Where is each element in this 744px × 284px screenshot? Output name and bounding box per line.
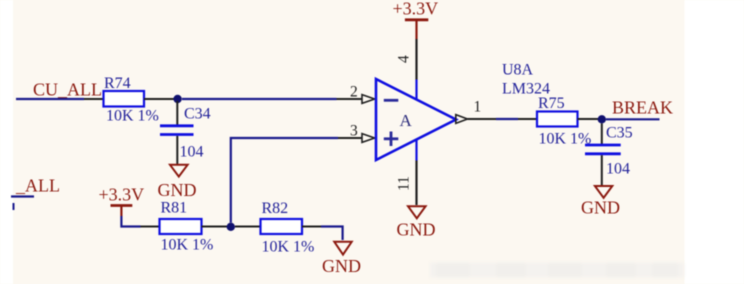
- op-amp plus mark: [384, 132, 399, 147]
- svg-text:+3.3V: +3.3V: [393, 0, 439, 19]
- power +3.3V (top) stem: [415, 20, 417, 39]
- svg-text:R81: R81: [161, 200, 188, 217]
- right white margin: [685, 0, 744, 284]
- svg-text:R74: R74: [104, 75, 131, 92]
- wire pin 2 stub: [337, 98, 363, 100]
- wire R74 left lead: [84, 98, 104, 100]
- pin 11 stub (blue): [415, 140, 417, 161]
- junction B (R81/R82/pin3): [227, 223, 235, 231]
- op-amp U8A triangle: [376, 79, 456, 160]
- svg-text:104: 104: [606, 161, 630, 178]
- capacitor C34: [160, 126, 194, 135]
- wire R75 left lead: [518, 118, 538, 120]
- wire pin 1 to R75: [468, 118, 497, 120]
- svg-text:_ALL: _ALL: [15, 176, 60, 196]
- wire C34 bottom lead: [176, 136, 178, 164]
- ground symbol (C35): [595, 186, 612, 198]
- wire segment (net): [496, 118, 518, 120]
- pin 2 arrow: [362, 95, 375, 104]
- wire C35 top lead: [601, 124, 603, 145]
- svg-text:11: 11: [396, 176, 413, 191]
- wire CU_ALL to R74: [16, 98, 84, 100]
- pin 3 arrow: [362, 134, 375, 143]
- svg-text:C35: C35: [606, 125, 633, 142]
- ground symbol (C34): [170, 165, 188, 177]
- wire R82 right lead: [302, 226, 321, 228]
- junction C (R75/C35/BREAK): [598, 115, 606, 123]
- wire +3.3V to R81: [121, 216, 140, 227]
- wire under _ALL: [11, 195, 34, 197]
- wire R75 right lead: [578, 118, 599, 120]
- svg-text:R75: R75: [538, 95, 565, 112]
- svg-text:10K 1%: 10K 1%: [262, 239, 315, 256]
- wire pin 11 to ground: [415, 161, 417, 206]
- wire junction to BREAK: [606, 118, 660, 120]
- svg-text:+3.3V: +3.3V: [99, 185, 145, 205]
- svg-text:10K 1%: 10K 1%: [539, 131, 592, 148]
- capacitor C35: [585, 145, 621, 154]
- svg-text:BREAK: BREAK: [612, 98, 673, 118]
- svg-text:U8A: U8A: [502, 62, 534, 79]
- svg-text:GND: GND: [158, 180, 197, 200]
- power +3.3V (top) bar: [405, 18, 428, 21]
- wire R82 left lead: [235, 226, 261, 228]
- resistor R75: [537, 112, 578, 127]
- svg-text:4: 4: [396, 55, 413, 63]
- svg-text:3: 3: [350, 123, 358, 140]
- watermark strip: [430, 263, 684, 278]
- pin 1 arrow (output): [456, 115, 468, 124]
- svg-text:GND: GND: [581, 198, 620, 218]
- wire C35 bottom lead: [601, 155, 603, 185]
- op-amp minus mark: [384, 99, 399, 102]
- left white margin: [0, 0, 13, 284]
- svg-text:104: 104: [180, 144, 204, 161]
- svg-text:GND: GND: [397, 220, 436, 240]
- resistor R81: [160, 219, 202, 234]
- wire junction up and to pin 3: [231, 138, 338, 223]
- wire tick at left edge: [13, 203, 15, 210]
- resistor R82: [261, 219, 303, 234]
- svg-text:R82: R82: [262, 200, 289, 217]
- wire R82 to ground: [321, 227, 343, 241]
- junction A (R74/C34): [173, 95, 181, 103]
- wire junction to pin 2: [182, 98, 337, 100]
- wire R81 left lead: [141, 226, 161, 228]
- wire R74 right lead: [144, 98, 174, 100]
- wire R81 right lead: [202, 226, 228, 228]
- wire C34 top lead: [176, 101, 178, 125]
- wire +3.3V to pin 4: [415, 39, 417, 80]
- svg-text:10K 1%: 10K 1%: [106, 108, 159, 125]
- svg-text:A: A: [400, 111, 413, 130]
- svg-text:1: 1: [474, 99, 482, 116]
- resistor R74: [104, 91, 145, 107]
- svg-text:C34: C34: [184, 106, 211, 123]
- power +3.3V (left) stem: [120, 206, 122, 217]
- svg-text:2: 2: [350, 84, 358, 101]
- power +3.3V (left) bar: [111, 204, 133, 207]
- ground symbol (R82): [334, 242, 351, 255]
- wire pin 3 stub: [338, 137, 362, 139]
- pin 4 stub (blue): [415, 80, 417, 100]
- ground symbol (pin 11): [408, 206, 426, 218]
- svg-text:10K 1%: 10K 1%: [161, 237, 214, 254]
- svg-text:GND: GND: [322, 256, 361, 276]
- svg-text:CU_ALL: CU_ALL: [33, 80, 102, 100]
